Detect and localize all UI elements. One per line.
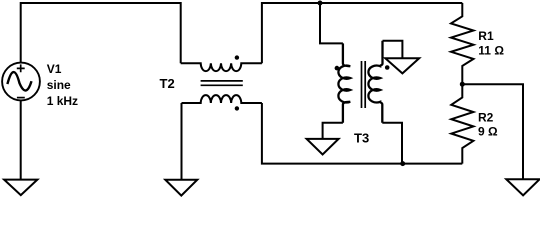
transformer T2 primary phase dot (235, 55, 239, 59)
node junction on bottom rail (400, 161, 405, 166)
transformer T3 primary winding (left) (338, 43, 350, 122)
transformer T2 primary winding (top) (181, 63, 262, 71)
node junction between R1 and R2 (460, 82, 465, 87)
transformer T3 primary phase dot (335, 66, 340, 71)
ground under T3 primary (307, 139, 339, 155)
svg-text:T2: T2 (160, 76, 175, 91)
svg-text:T3: T3 (354, 130, 369, 145)
transformer T2 core (201, 81, 243, 85)
wire: T2 secondary right lead down to bottom rail (262, 103, 462, 164)
ground under T2 (165, 180, 197, 196)
svg-text:1 kHz: 1 kHz (47, 94, 78, 108)
wire: V1 top lead and top-left rail to T2 primary (21, 3, 181, 63)
ground under V1 (4, 180, 37, 196)
transformer T2 secondary phase dot (235, 106, 239, 110)
wire: T2 secondary left lead down to ground (181, 103, 183, 180)
ground at T3 secondary top (385, 58, 419, 73)
voltage source V1 plus sign (17, 64, 25, 72)
wire: top rail down to T3 primary top (320, 3, 343, 43)
voltage source V1 sine symbol (7, 72, 31, 91)
svg-text:11 Ω: 11 Ω (478, 44, 504, 58)
transformer T3 secondary phase dot (385, 65, 390, 70)
voltage source V1 minus sign (17, 97, 25, 99)
svg-text:R1: R1 (478, 29, 494, 43)
resistor R1 (451, 3, 474, 84)
transformer T3 core (362, 61, 366, 108)
ground at output (506, 179, 539, 195)
wire: T2 primary right lead up to top rail (262, 3, 462, 63)
svg-text:sine: sine (47, 78, 71, 92)
node junction on top rail (318, 1, 323, 6)
svg-text:V1: V1 (47, 62, 62, 76)
wire: V1 bottom lead (20, 100, 22, 179)
wire: output tap from R1/R2 junction to ground (462, 84, 523, 179)
wire: T3 secondary top lead to ground (383, 41, 403, 59)
transformer T3 secondary winding (right) (368, 41, 382, 123)
transformer T2 secondary winding (bottom) (182, 95, 262, 103)
svg-text:9 Ω: 9 Ω (478, 124, 498, 138)
svg-text:R2: R2 (478, 111, 494, 125)
wire: T3 secondary bottom lead to bottom rail (382, 123, 402, 164)
resistor R2 (451, 84, 473, 163)
wire: T3 primary bottom lead to ground (323, 123, 343, 139)
voltage source V1 circle (2, 63, 40, 101)
